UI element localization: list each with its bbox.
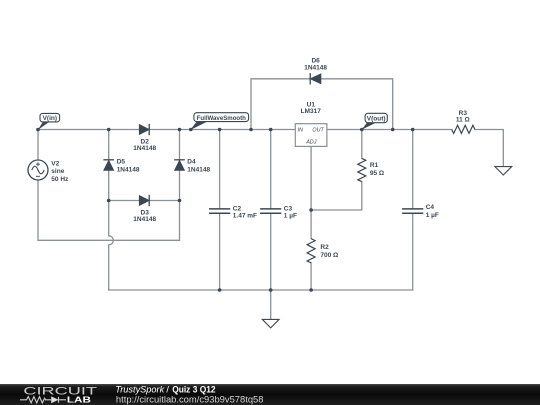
ground (center, below C3) bbox=[262, 319, 279, 328]
wire D6 loop bbox=[251, 79, 393, 130]
svg-text:R2: R2 bbox=[320, 244, 329, 251]
svg-text:Quiz 3 Q12: Quiz 3 Q12 bbox=[172, 384, 215, 394]
R1 label bbox=[370, 162, 384, 177]
wire D4 bottom to D3 row bbox=[179, 170, 181, 200]
wire C3 branch bbox=[270, 130, 272, 320]
node: C3 top junction bbox=[269, 128, 273, 132]
wire C2 branch bbox=[219, 130, 221, 291]
svg-text:D5: D5 bbox=[117, 159, 126, 166]
node: C3/ground bottom junction bbox=[269, 288, 273, 292]
wire U1 OUT to R3 bbox=[327, 129, 452, 131]
ground (right, below R3) bbox=[495, 167, 512, 175]
svg-text:1N4148: 1N4148 bbox=[187, 167, 210, 174]
D2 label bbox=[133, 138, 156, 152]
R3 label bbox=[456, 110, 470, 124]
wire D5 bottom to D3 row, then down with hop over V2 wire, to bottom rail bbox=[109, 170, 114, 290]
svg-text:1N4148: 1N4148 bbox=[133, 145, 156, 152]
wire D3 row bbox=[109, 200, 180, 202]
svg-text:IN: IN bbox=[298, 127, 303, 133]
resistor R3 bbox=[452, 125, 475, 133]
node: V(out)/R1 junction bbox=[360, 128, 364, 132]
node: C2 bottom junction bbox=[218, 288, 222, 292]
wire C4 branch bbox=[412, 130, 414, 291]
D4 label bbox=[187, 159, 210, 174]
svg-text:D4: D4 bbox=[187, 159, 196, 166]
svg-text:LAB: LAB bbox=[67, 394, 91, 404]
voltage source V2 bbox=[28, 160, 48, 180]
U1 pin names bbox=[298, 127, 325, 145]
diode D2 bbox=[139, 124, 149, 135]
svg-text:TrustySpork: TrustySpork bbox=[115, 384, 164, 394]
node: D4/D3 junction bbox=[178, 199, 182, 203]
svg-text:OUT: OUT bbox=[312, 127, 324, 133]
svg-text:C2: C2 bbox=[233, 205, 242, 212]
svg-text:1N4148: 1N4148 bbox=[133, 216, 156, 223]
svg-text:sine: sine bbox=[51, 168, 64, 175]
svg-text:V2: V2 bbox=[51, 160, 59, 167]
wire V(in) down to V2 top bbox=[37, 130, 39, 161]
svg-text:V(out): V(out) bbox=[367, 116, 386, 123]
wire D5 branch top bbox=[108, 130, 110, 160]
node: FullWaveSmooth attach bbox=[189, 128, 193, 132]
wire R2 bottom lead bbox=[310, 263, 312, 290]
svg-text:http://circuitlab.com/c93b9v57: http://circuitlab.com/c93b9v578tq58 bbox=[116, 394, 264, 404]
capacitor C2 bbox=[209, 209, 230, 213]
capacitor C4 bbox=[402, 209, 423, 213]
node label V(in) bbox=[38, 113, 60, 129]
node: C4 top junction bbox=[411, 128, 415, 132]
svg-text:R1: R1 bbox=[370, 162, 379, 169]
diode D6 bbox=[310, 73, 321, 84]
C2 label bbox=[233, 205, 257, 219]
diode D4 bbox=[174, 160, 185, 170]
node label FullWaveSmooth bbox=[190, 113, 248, 130]
C3 label bbox=[284, 205, 297, 219]
node label V(out) bbox=[362, 113, 388, 130]
svg-text:50 Hz: 50 Hz bbox=[51, 176, 69, 183]
svg-text:700 Ω: 700 Ω bbox=[320, 252, 338, 259]
node: D4 top junction bbox=[178, 128, 182, 132]
svg-text:ADJ: ADJ bbox=[305, 140, 316, 146]
wire U1 ADJ stem bbox=[310, 146, 312, 238]
svg-text:V(in): V(in) bbox=[43, 115, 57, 122]
node: D5 top junction bbox=[107, 128, 111, 132]
svg-text:/: / bbox=[166, 384, 169, 394]
D3 label bbox=[133, 209, 156, 223]
svg-text:95 Ω: 95 Ω bbox=[370, 170, 384, 177]
wire D4 branch top bbox=[179, 130, 181, 160]
wire R3 right lead to ground corner bbox=[475, 130, 503, 167]
wire bottom rail bbox=[109, 289, 413, 291]
D5 label bbox=[117, 159, 140, 174]
resistor R1 bbox=[358, 158, 366, 181]
node: C2 top junction bbox=[218, 128, 222, 132]
node: D6 left junction bbox=[249, 128, 253, 132]
wire V2 bottom down and right to D3/D4 corner bbox=[38, 180, 180, 240]
node: D6 right junction bbox=[391, 128, 395, 132]
R2 label bbox=[320, 244, 338, 259]
C4 label bbox=[426, 204, 439, 219]
footer bar bbox=[0, 384, 540, 405]
U1 label bbox=[301, 101, 322, 115]
wire corner up to D3/D4 junction bbox=[179, 201, 181, 241]
diode D3 bbox=[139, 195, 149, 206]
wire R1 bottom to ADJ node bbox=[311, 182, 362, 210]
svg-text:FullWaveSmooth: FullWaveSmooth bbox=[197, 115, 246, 122]
resistor R2 bbox=[307, 239, 315, 263]
svg-text:11 Ω: 11 Ω bbox=[456, 116, 470, 123]
svg-text:LM317: LM317 bbox=[301, 108, 322, 115]
svg-text:1.47 mF: 1.47 mF bbox=[233, 213, 257, 220]
wire R1 branch top bbox=[361, 130, 363, 159]
svg-text:1 µF: 1 µF bbox=[284, 213, 297, 220]
V2 label text bbox=[51, 160, 69, 183]
node: D5/D3 junction bbox=[107, 199, 111, 203]
wire main top line V(in) to U1 IN bbox=[38, 129, 295, 131]
svg-text:1N4148: 1N4148 bbox=[304, 64, 327, 71]
svg-text:1N4148: 1N4148 bbox=[117, 167, 140, 174]
D6 label bbox=[304, 58, 327, 72]
logo resistor-diode glyph bbox=[20, 397, 66, 403]
capacitor C3 bbox=[260, 209, 281, 213]
diode D5 bbox=[103, 160, 114, 170]
svg-text:1 µF: 1 µF bbox=[426, 212, 439, 219]
svg-text:C3: C3 bbox=[284, 205, 293, 212]
node A: V(in) junction dot bbox=[36, 128, 40, 132]
node: ADJ/R1/R2 junction bbox=[309, 208, 313, 212]
svg-text:C4: C4 bbox=[426, 204, 435, 211]
op-amp U1 LM317 box bbox=[295, 124, 327, 147]
node: R2 bottom junction bbox=[309, 288, 313, 292]
